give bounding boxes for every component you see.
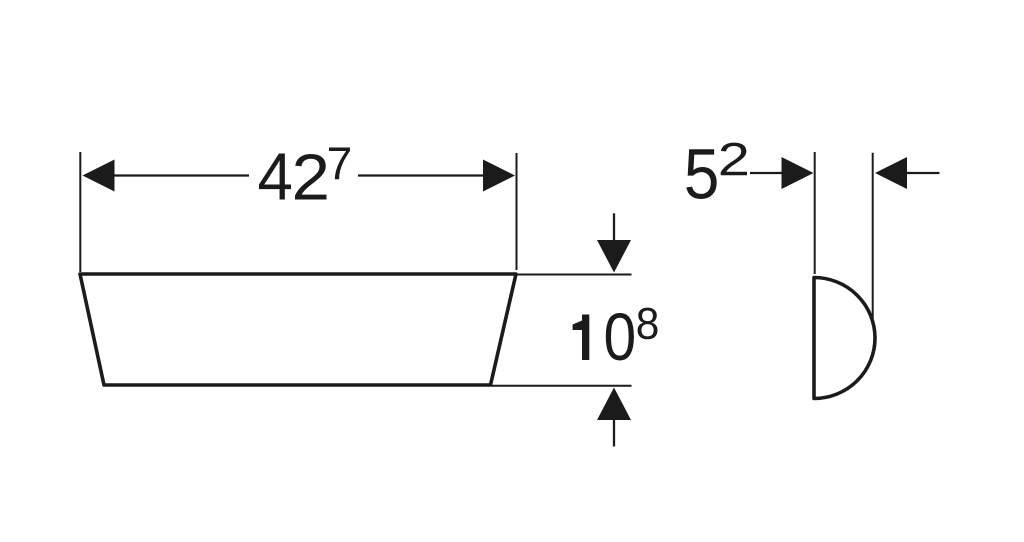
extension line bottom (height dim): [491, 385, 632, 387]
extension line right (52 dim): [872, 153, 874, 321]
bottom arrow leader (height dim): [613, 419, 615, 447]
label 427 digit 4: [259, 154, 291, 200]
extension line top (height dim): [517, 274, 632, 276]
arrowhead down (height dim): [597, 240, 631, 273]
label 108 digit 1: [573, 315, 590, 361]
arrowhead up (height dim): [597, 388, 631, 421]
extension line right (width dim): [516, 153, 518, 270]
dimension line 427 left segment: [112, 174, 249, 176]
label 427 superscript 7: [329, 148, 350, 180]
arrowhead left-pointing (52): [875, 157, 907, 189]
top arrow leader (height dim): [613, 213, 615, 241]
dimension tail right (52): [906, 172, 940, 174]
arrowhead left (427): [83, 160, 115, 192]
extension line left (52 dim): [814, 152, 816, 274]
label 52 digit 5: [686, 149, 716, 199]
label 427 digit 2: [295, 154, 326, 199]
arrowhead right-pointing (52): [782, 157, 814, 189]
side view profile (half-disc): [814, 278, 875, 399]
label 108 digit 0: [606, 313, 634, 361]
dimension line 427 right segment: [358, 174, 486, 176]
front view outline (trapezoid body): [80, 274, 516, 385]
arrowhead right (427): [483, 160, 515, 192]
dimension tail left (52): [750, 172, 783, 174]
label 52 superscript 2: [721, 143, 747, 176]
label 108 superscript 8: [638, 308, 658, 340]
extension line left (width dim): [79, 152, 81, 272]
